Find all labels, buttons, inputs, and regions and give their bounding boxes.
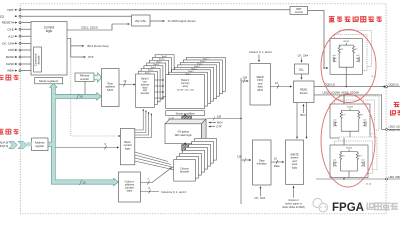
svg-text:(32,768 x 128 x 128): (32,768 x 128 x 128) [177, 90, 194, 92]
wire 13 MUX to bank latch [119, 83, 135, 87]
wires latch to memory array [155, 80, 165, 98]
svg-text:MUX: MUX [257, 88, 263, 92]
svg-text:FPGA: FPGA [332, 202, 364, 214]
wire RESET# [15, 22, 31, 24]
address input labels A[14:0] BA[2:0] [0, 141, 8, 149]
input signal CS# [8, 48, 14, 52]
wire CK into DLL [301, 58, 303, 63]
pad bullet DQ [386, 86, 388, 88]
teal address bus: register input stub [26, 142, 31, 146]
I/O gating DM mask logic [165, 119, 206, 144]
wire control to BC4/OTF branch [67, 39, 86, 58]
wires WRITE drivers receivers from DQ path [297, 103, 307, 139]
svg-text:LDM, UDM: LDM, UDM [389, 176, 400, 179]
svg-text:logic: logic [46, 29, 53, 33]
svg-text:VDDQ/2: VDDQ/2 [347, 107, 353, 109]
wire CS# [15, 49, 31, 51]
input signal CKE [7, 27, 13, 31]
svg-text:CK, CK#: CK, CK# [298, 54, 309, 58]
wire CK [15, 42, 31, 44]
sense amplifiers [166, 111, 205, 116]
svg-text:logic: logic [125, 146, 131, 150]
WRITE drivers and input logic [286, 140, 304, 184]
wire refresh counter down [84, 81, 86, 94]
svg-text:128: 128 [243, 75, 248, 79]
svg-text:Data: Data [274, 164, 280, 168]
svg-text:OTF: OTF [88, 55, 94, 59]
wire column select into READ FIFO [258, 55, 260, 62]
svg-text:sw2: sw2 [356, 55, 359, 57]
watermark logo [313, 198, 328, 212]
bank row-address latch and decoder stack [136, 55, 175, 108]
svg-text:Column 0, 1, and 2: Column 0, 1, and 2 [249, 50, 272, 54]
svg-text:interface: interface [257, 162, 268, 166]
svg-text:BC4: BC4 [301, 113, 307, 117]
row address MUX [102, 69, 120, 107]
svg-text:sw1: sw1 [333, 119, 336, 121]
svg-text:sw1: sw1 [333, 159, 336, 161]
input signal CK, CK# [2, 41, 14, 45]
svg-text:register: register [35, 144, 44, 148]
pad bullet DQS [386, 128, 388, 130]
svg-text:sw2: sw2 [361, 159, 364, 161]
wire ODT termination DQS bottom stub [343, 138, 345, 145]
hatched bus I/O gating to column decoder [182, 142, 192, 153]
red annotation text right edge: shu ju / zu xin hao (clipped) [391, 102, 400, 115]
red annotation text: di zhi xin hao (address signals, clipped) [0, 129, 18, 134]
bus width label 16 [77, 94, 79, 99]
wire A12 [15, 35, 31, 37]
svg-text:(1, 2): (1, 2) [366, 183, 371, 185]
svg-text:decoder: decoder [180, 170, 190, 174]
wires bank control to column decoders [135, 152, 177, 171]
svg-text:CK, CK#: CK, CK# [255, 196, 266, 200]
wires bank control to row latches [135, 109, 152, 138]
svg-text:RTT: RTT [342, 156, 345, 158]
input signal ODT [7, 8, 14, 12]
wire ODT termination DM bottom stub [343, 178, 345, 180]
data interface [253, 140, 272, 185]
address register [32, 138, 49, 151]
red annotation ellipse bottom [321, 94, 375, 187]
svg-text:RESET#: RESET# [2, 21, 14, 25]
ODT termination DQS [330, 96, 379, 138]
wire 16 data to WRITE drivers [271, 160, 284, 164]
svg-text:logic: logic [292, 165, 298, 169]
svg-text:16: 16 [79, 95, 83, 99]
svg-text:CK, CK#: CK, CK# [2, 41, 14, 45]
svg-text:RTT: RTT [341, 49, 344, 51]
svg-text:13: 13 [123, 79, 127, 83]
svg-text:ODT: ODT [7, 8, 14, 12]
svg-text:array: array [182, 85, 188, 88]
column-address counter/latch [119, 172, 141, 202]
svg-text:latch: latch [127, 189, 133, 193]
svg-text:DM mask logic: DM mask logic [175, 133, 193, 137]
svg-text:RTT: RTT [355, 49, 358, 51]
svg-text:Mode registers: Mode registers [39, 79, 59, 83]
svg-text:control: control [295, 10, 303, 14]
mode registers [35, 78, 63, 84]
svg-text:CAS#: CAS# [6, 62, 14, 66]
svg-text:WE#: WE# [7, 69, 14, 73]
svg-text:drivers: drivers [300, 91, 308, 95]
svg-text:VDDQ/2: VDDQ/2 [343, 41, 349, 43]
wire to ODT/output drivers [150, 20, 165, 22]
svg-text:A[14:0]: A[14:0] [0, 141, 8, 145]
svg-text:ZQ: ZQ [0, 14, 5, 18]
input signal CAS# [6, 62, 14, 66]
DLL [295, 64, 309, 74]
svg-text:RTT: RTT [360, 115, 363, 117]
svg-text:RTT: RTT [343, 115, 346, 117]
svg-text:sw2: sw2 [363, 119, 366, 121]
svg-text:ZQ CAL: ZQ CAL [135, 19, 146, 23]
red annotation text: kong zhi xin hao (control signals, clipped) [0, 75, 18, 81]
svg-text:10: 10 [83, 180, 87, 184]
svg-text:Columns 0, 1, and 2: Columns 0, 1, and 2 [161, 190, 186, 194]
wire column 2 into WRITE drivers [293, 186, 295, 198]
watermark text ji shu shi zhan [367, 203, 398, 211]
svg-text:MUX: MUX [107, 88, 113, 92]
READ drivers [294, 81, 315, 103]
svg-text:RTT: RTT [359, 156, 362, 158]
hatched bus sense amps to I/O gating [182, 114, 192, 125]
command decode [33, 47, 41, 72]
wire 7 column counter to column decoder [141, 168, 172, 185]
svg-text:BC4: BC4 [217, 121, 223, 125]
wire DLL to READ drivers [301, 74, 303, 79]
bus width labels 128 [213, 79, 246, 162]
red annotation ellipse top (internal data termination) [321, 30, 376, 103]
wire CK into data interface [260, 187, 262, 197]
wire columns 0,1,2 [141, 190, 160, 194]
refresh counter [75, 73, 94, 81]
ODT control U-odt [290, 6, 308, 14]
bus width label 10 [80, 180, 82, 185]
svg-text:A12: A12 [8, 34, 14, 38]
wire ODT termination DQ bottom stub [345, 74, 347, 86]
svg-text:VDDQ/2: VDDQ/2 [346, 148, 352, 150]
input signal RESET# [2, 21, 14, 25]
svg-text:CS#: CS# [8, 48, 14, 52]
READ FIFO and data MUX [250, 64, 271, 105]
svg-text:128: 128 [217, 115, 222, 119]
net label Column 2 select [282, 199, 305, 209]
svg-text:decode: decode [37, 55, 41, 64]
svg-text:lower nibble for BC8): lower nibble for BC8) [282, 206, 305, 209]
svg-text:UDQS, UDQS#: UDQS, UDQS# [389, 130, 400, 132]
wire ZQ [15, 15, 132, 17]
column decoder stack [174, 138, 217, 181]
input signal WE# [7, 69, 14, 73]
wire ODT [15, 9, 290, 11]
DQ wire [314, 86, 400, 88]
input signal ZQ [0, 14, 5, 18]
input signal RAS# [6, 55, 14, 59]
svg-text:ZQCL, ZQCS: ZQCL, ZQCS [81, 26, 98, 30]
teal address bus trunk and branches [48, 83, 118, 185]
input signal A12 / BC# [8, 34, 14, 38]
wire RAS# [15, 56, 31, 58]
wire OTF into I/O gating [209, 126, 215, 128]
dotted wire control to bank control logic [71, 57, 119, 136]
ZQ CAL U-zq [132, 15, 151, 26]
svg-text:To ODT/output drivers: To ODT/output drivers [168, 19, 197, 23]
svg-text:BC4 (burst chop): BC4 (burst chop) [88, 44, 109, 48]
hollow arrow refresh to MUX [94, 73, 102, 82]
ODT termination DQ [330, 31, 372, 75]
svg-text:OTF: OTF [216, 125, 222, 129]
DQS wire [314, 95, 400, 129]
control logic U-ctrl [31, 22, 67, 75]
svg-text:16: 16 [275, 81, 278, 85]
DM wire [316, 178, 400, 180]
wire bank address 3 to bank control [56, 146, 119, 150]
wire DQS termination to DM termination stub (redraw over layers) [343, 138, 345, 145]
svg-text:CKE: CKE [7, 27, 13, 31]
svg-text:decoder: decoder [141, 92, 150, 95]
wire 16 READ FIFO to READ drivers [271, 85, 292, 89]
wire ODT termination DQS top stub [343, 95, 345, 104]
wire WE# [15, 70, 31, 72]
wire BC4 into READ drivers [303, 104, 305, 113]
pad bullet DM [386, 178, 388, 180]
svg-text:DQ[15:0]: DQ[15:0] [325, 82, 336, 86]
ODT termination DM [330, 137, 377, 178]
bank memory array stack [166, 57, 226, 108]
wire BC4 into I/O gating [209, 122, 216, 124]
wire CKE [15, 28, 31, 30]
svg-text:RAS#: RAS# [6, 55, 14, 59]
svg-text:128: 128 [237, 154, 242, 158]
wire CAS# [15, 63, 31, 65]
svg-text:DQ[15:0]: DQ[15:0] [389, 83, 399, 86]
svg-text:LDQS, LDQS#,: LDQS, LDQS#, [389, 127, 400, 129]
svg-text:DLL: DLL [299, 68, 305, 72]
svg-text:counter: counter [80, 77, 89, 81]
wire ZQCL/ZQCS to ZQ CAL [67, 24, 130, 30]
svg-text:16: 16 [274, 157, 277, 161]
svg-text:Address: Address [35, 140, 46, 144]
svg-text:sw1: sw1 [333, 55, 336, 57]
wire ODT control to termination [308, 10, 328, 68]
vertical 128 bus (I/O gating to data path) [207, 78, 251, 204]
bank control logic [120, 129, 134, 165]
svg-text:BA[2:0]: BA[2:0] [0, 144, 8, 148]
red annotation text: nei bu shu ju zu duan jie [329, 16, 382, 22]
address input chevron arrows [9, 141, 27, 148]
port label LDQS/UDQS [389, 127, 400, 132]
